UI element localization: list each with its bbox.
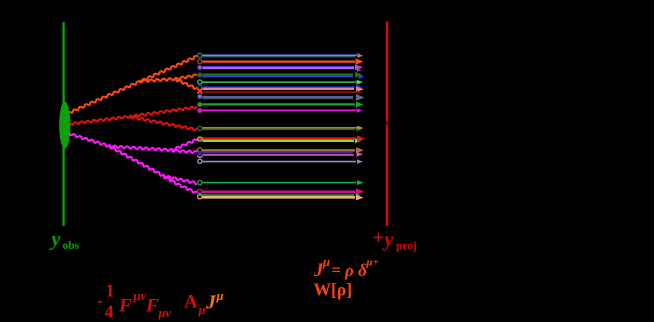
interaction term A_mu J^mu (184, 289, 224, 317)
gluon R2 (131, 117, 197, 131)
parton line pair 1 (navy/gold/teal) (198, 52, 363, 57)
parton line 17 (mediumvioletred) (198, 188, 364, 194)
label +y_proj (373, 227, 418, 253)
parton line 10 (magenta) (198, 108, 363, 112)
parton line pair 18 (green/burlywood) (197, 193, 364, 200)
parton line 16 (green) (198, 180, 364, 185)
svg-text:J: J (205, 293, 217, 314)
svg-text:F: F (118, 296, 132, 317)
parton line 5 (springgreen) (198, 80, 363, 85)
gluon O1 (70, 56, 196, 113)
svg-text:μ+: μ+ (366, 257, 379, 269)
svg-text:ρ: ρ (344, 261, 354, 280)
svg-text:+: + (373, 227, 385, 249)
gluon O2 (140, 75, 197, 83)
parton line 9 (forestgreen) (198, 102, 364, 108)
projectile worldline +y_proj (386, 22, 388, 227)
gluon M trunk (70, 134, 111, 147)
parton line 15 (lightslate) (198, 159, 363, 164)
gluon M2b (164, 176, 197, 192)
parton line pair 8 (slate/darkslategray) (198, 94, 365, 101)
gluon R trunk (71, 115, 131, 124)
parton line pair 6 (blue/salmon) (198, 84, 364, 92)
svg-text:y: y (50, 229, 61, 251)
label y_obs (50, 229, 80, 253)
svg-text:F: F (145, 296, 159, 317)
svg-text:μ: μ (322, 255, 330, 269)
parton line 3 (violet) (198, 64, 363, 71)
weight functional W[rho] (314, 280, 353, 300)
gluon M2a (164, 176, 196, 185)
svg-text:=: = (332, 261, 341, 280)
gluon M1 (110, 139, 197, 151)
source blob (observer charge density) (59, 102, 70, 149)
parton line pair 12 (red/yellowgreen) (198, 135, 365, 143)
svg-text:proj: proj (396, 241, 417, 253)
svg-text:obs: obs (63, 240, 80, 252)
svg-text:A: A (184, 292, 198, 313)
svg-text:y: y (383, 229, 394, 251)
parton line triple 13 (peru/darkslateblue/orchid) (197, 147, 364, 157)
parton line pair 4 (darkgreen/royalblue) (198, 72, 365, 79)
parton line 7 (darkred), emission vertex X (197, 89, 362, 95)
svg-text:μν: μν (133, 289, 147, 303)
svg-text:μν: μν (158, 306, 172, 320)
gluon M1b (172, 150, 197, 153)
current definition J^mu = rho delta^mu+ (313, 255, 379, 281)
svg-text:1: 1 (106, 281, 115, 301)
svg-text:μ: μ (198, 303, 206, 317)
lagrangian term -1/4 F^munu F_munu (97, 281, 171, 322)
parton line 2 (tomato) (198, 58, 364, 64)
parton line pair 11 (darkkhaki/darkgreen) (198, 126, 364, 132)
svg-text:μ: μ (216, 289, 224, 303)
gluon R1 (131, 107, 197, 117)
gluon M2 (110, 146, 164, 175)
svg-text:-: - (97, 291, 103, 310)
observer worldline y_obs (62, 22, 64, 226)
svg-text:4: 4 (105, 302, 114, 322)
svg-text:W[ρ]: W[ρ] (314, 280, 353, 300)
gluon O3 (176, 79, 197, 89)
